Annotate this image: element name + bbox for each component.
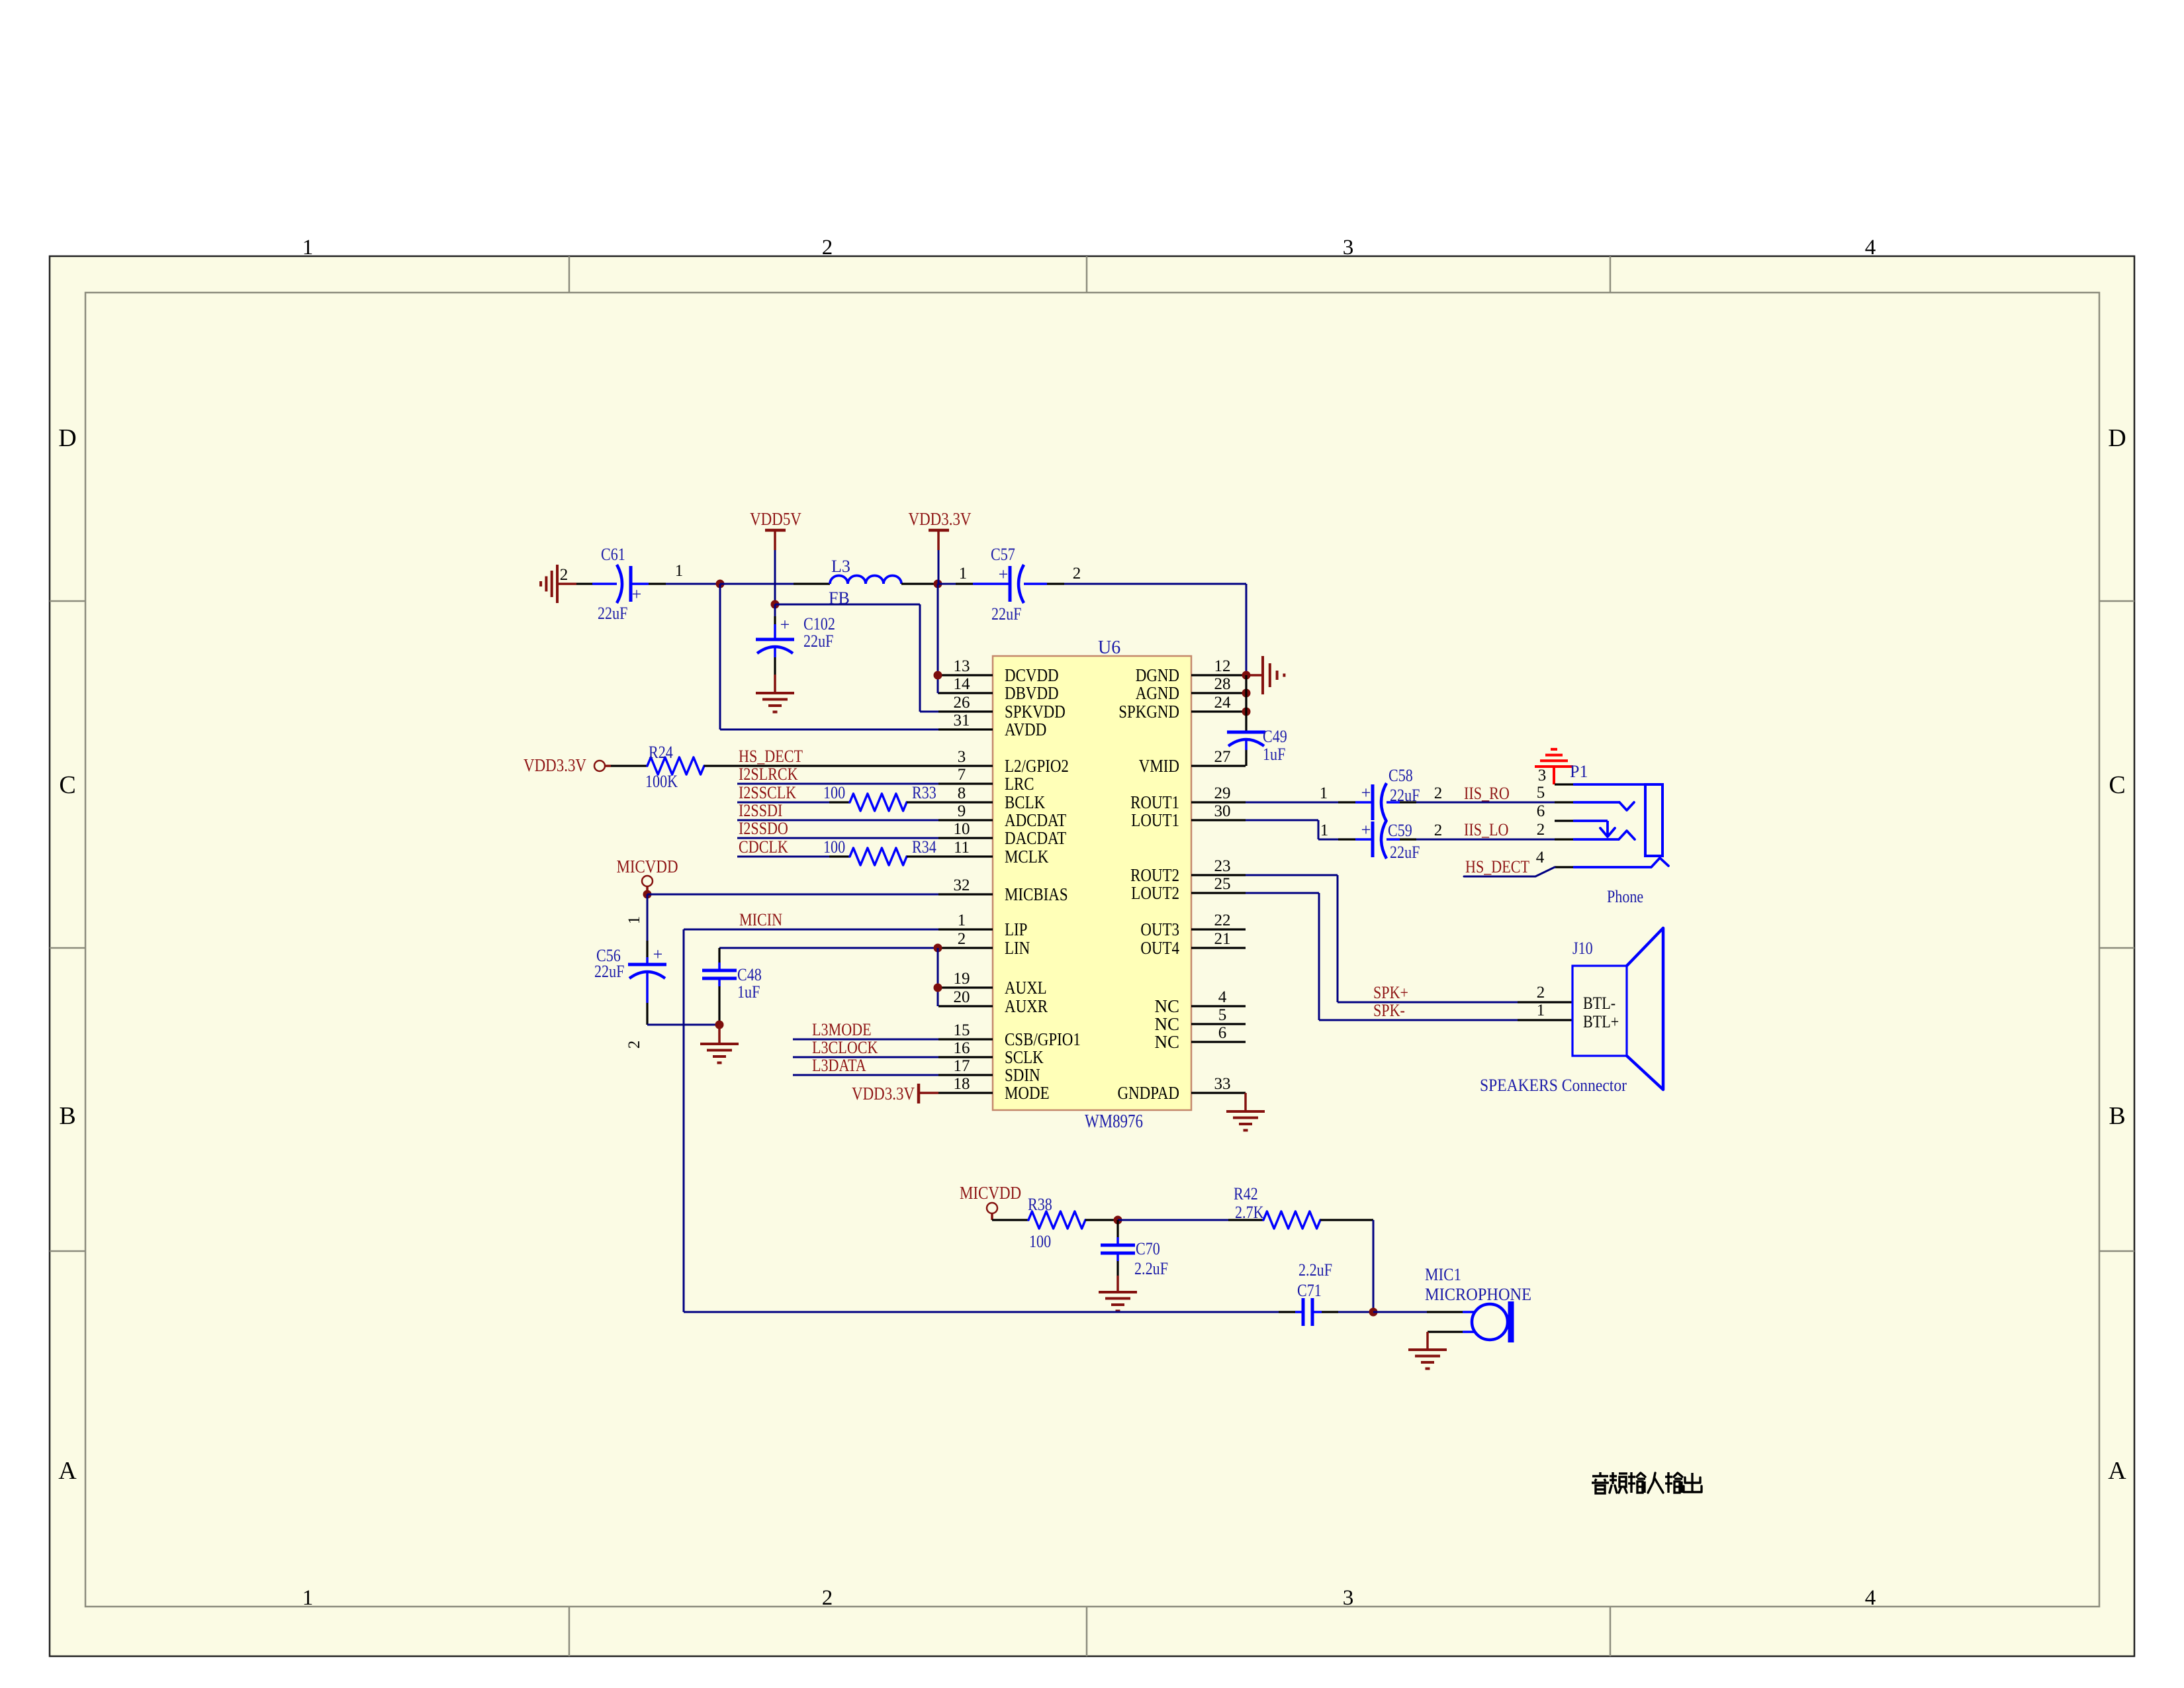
svg-text:1: 1 (302, 1586, 314, 1610)
svg-text:3: 3 (1343, 236, 1354, 259)
svg-text:100: 100 (1029, 1232, 1051, 1251)
ground below C48 (718, 1025, 721, 1044)
svg-text:L3CLOCK: L3CLOCK (812, 1038, 878, 1057)
svg-text:+: + (1361, 783, 1371, 802)
U6 pin 12 DGND (1191, 674, 1246, 676)
inner drawing border (85, 293, 2099, 1607)
svg-text:CDCLK: CDCLK (739, 837, 788, 857)
J10 speaker cone (1627, 928, 1663, 1090)
wire C59 to P1 pin2 (1416, 839, 1555, 841)
P1 pin 3 (1555, 783, 1573, 785)
wire pin7 LRC (737, 783, 938, 785)
U6 pin 18 MODE (938, 1092, 993, 1094)
svg-text:2: 2 (822, 1586, 833, 1610)
svg-text:OUT3: OUT3 (1140, 919, 1179, 939)
svg-text:Phone: Phone (1607, 887, 1643, 906)
U6 pin 28 AGND (1191, 692, 1246, 694)
node: C71/R42/MIC junction (1369, 1308, 1378, 1317)
wire pin9 ADCDAT (737, 820, 938, 821)
wire ROUT1 to C58 (1246, 802, 1338, 804)
svg-text:IIS_RO: IIS_RO (1464, 784, 1510, 803)
P1 pin 4 (1555, 866, 1573, 868)
svg-text:22uF: 22uF (598, 604, 627, 623)
U6 pin 16 SCLK (938, 1056, 993, 1058)
U6 pin 15 CSB/GPIO1 (938, 1038, 993, 1040)
U6 pin 10 DACDAT (938, 837, 993, 839)
IC U6 WM8976 body (993, 656, 1191, 1110)
U6 pin 32 MICBIAS (938, 893, 993, 895)
wire LOUT1 to C59 (1246, 820, 1318, 821)
svg-text:28: 28 (1214, 675, 1231, 693)
svg-text:3: 3 (958, 748, 966, 766)
svg-text:2: 2 (625, 1041, 643, 1049)
U6 pin 8 BCLK (938, 801, 993, 803)
microphone MIC1 (1427, 1311, 1463, 1313)
svg-text:2: 2 (822, 236, 833, 259)
wire MICVDD down to C56 (647, 894, 649, 941)
svg-text:C58: C58 (1388, 766, 1413, 785)
svg-text:R33: R33 (912, 783, 936, 802)
wire MICIN to LIP pin1 (684, 929, 938, 931)
capacitor C58 pin1 (1338, 801, 1355, 803)
svg-text:L2/GPIO2: L2/GPIO2 (1005, 756, 1069, 776)
U6 pin 24 SPKGND (1191, 710, 1246, 712)
svg-text:+: + (653, 945, 663, 964)
P1 contact arrow pin6 (1573, 820, 1608, 822)
svg-text:22: 22 (1214, 912, 1231, 929)
ground left of C61 (556, 565, 559, 603)
svg-text:21: 21 (1214, 930, 1231, 948)
J10 speaker body (1572, 966, 1627, 1056)
svg-text:LRC: LRC (1005, 774, 1034, 794)
svg-text:I2SLRCK: I2SLRCK (739, 765, 798, 784)
wire down to AVDD pin 31 (719, 584, 721, 729)
svg-text:31: 31 (954, 712, 970, 729)
P1 detect contact pin4 (1573, 866, 1651, 868)
capacitor C56 (646, 941, 648, 957)
svg-text:MICVDD: MICVDD (616, 857, 678, 876)
svg-text:1: 1 (959, 565, 968, 583)
svg-text:L3: L3 (831, 557, 850, 576)
svg-text:24: 24 (1214, 694, 1232, 712)
svg-text:DACDAT: DACDAT (1005, 828, 1067, 848)
svg-text:1: 1 (1320, 784, 1328, 802)
U6 pin 4 NC (1191, 1005, 1246, 1007)
svg-text:NC: NC (1154, 996, 1179, 1016)
svg-text:R24: R24 (649, 743, 673, 762)
node: R38/C70/R42 junction (1114, 1216, 1122, 1225)
svg-text:MICVDD: MICVDD (960, 1183, 1021, 1203)
capacitor C57 (973, 583, 1009, 585)
svg-text:1uF: 1uF (737, 982, 760, 1002)
svg-text:LOUT1: LOUT1 (1131, 810, 1179, 830)
svg-text:FB: FB (829, 588, 850, 608)
capacitor C57 pin1 (938, 583, 956, 585)
svg-text:ROUT1: ROUT1 (1130, 792, 1179, 812)
svg-text:MICBIAS: MICBIAS (1005, 884, 1068, 904)
P1 pin 5 (1555, 801, 1573, 803)
svg-text:4: 4 (1865, 1586, 1876, 1610)
svg-text:2: 2 (1073, 565, 1081, 583)
svg-text:23: 23 (1214, 857, 1231, 875)
svg-text:SPKGND: SPKGND (1118, 702, 1179, 722)
wire pin10 DACDAT (737, 837, 938, 839)
svg-text:9: 9 (958, 802, 966, 820)
svg-text:B: B (59, 1102, 75, 1130)
svg-text:C48: C48 (737, 965, 762, 984)
node: MICBIAS junction (643, 890, 652, 899)
svg-text:VDD3.3V: VDD3.3V (909, 509, 972, 529)
svg-text:1uF: 1uF (1263, 745, 1285, 764)
svg-text:+: + (780, 615, 790, 634)
capacitor C58 (1355, 801, 1371, 804)
node: AGND junction (1242, 689, 1251, 698)
svg-text:I2SSCLK: I2SSCLK (739, 783, 796, 802)
wire pin11 MCLK (737, 856, 829, 858)
svg-text:SCLK: SCLK (1005, 1047, 1044, 1067)
svg-text:MODE: MODE (1005, 1083, 1050, 1103)
svg-text:I2SSDI: I2SSDI (739, 801, 782, 820)
svg-text:25: 25 (1214, 875, 1231, 893)
svg-text:2.7K: 2.7K (1235, 1203, 1264, 1222)
P1 pin 2 (1555, 838, 1573, 840)
svg-text:C49: C49 (1263, 727, 1287, 746)
U6 pin 21 OUT4 (1191, 947, 1246, 949)
wire MICBIAS pin32 (647, 894, 938, 896)
svg-text:A: A (2108, 1457, 2126, 1485)
svg-text:NC: NC (1154, 1032, 1179, 1052)
ground below microphone (1408, 1348, 1447, 1351)
svg-text:2: 2 (1434, 784, 1443, 802)
svg-text:U6: U6 (1098, 637, 1120, 658)
J10 pin 2 (1518, 1001, 1572, 1003)
svg-text:AVDD: AVDD (1005, 720, 1046, 739)
U6 pin 14 DBVDD (938, 692, 993, 694)
wire to R42 (1118, 1219, 1228, 1221)
L3 right pin to VDD3.3V node (901, 583, 938, 585)
svg-text:22uF: 22uF (1390, 843, 1420, 862)
svg-text:+: + (1361, 820, 1371, 839)
svg-text:C61: C61 (601, 545, 625, 564)
ground (bright red) at P1 pin3 (1535, 765, 1573, 768)
U6 pin 3 L2/GPIO2 (938, 765, 993, 767)
resistor R34 (829, 855, 850, 857)
wire FB node to SPKVDD pin 26 (775, 604, 920, 606)
svg-text:22uF: 22uF (803, 632, 833, 651)
capacitor C102 (774, 604, 776, 616)
long wire MICIN down to microphone row (683, 929, 685, 1312)
wire rail to L3 (720, 583, 794, 585)
wire LOUT2 to SPK- (1246, 892, 1319, 894)
svg-text:R38: R38 (1028, 1195, 1052, 1214)
sheet background (50, 256, 2134, 1656)
svg-text:2: 2 (560, 566, 569, 584)
svg-text:32: 32 (954, 876, 970, 894)
svg-text:18: 18 (954, 1075, 970, 1093)
svg-text:D: D (2108, 424, 2126, 452)
svg-text:17: 17 (954, 1057, 970, 1075)
wire C58 to P1 pin5 (1416, 802, 1555, 804)
svg-text:4: 4 (1536, 849, 1545, 867)
svg-text:4: 4 (1218, 988, 1227, 1006)
node: DCVDD junction (934, 671, 942, 680)
ground below C70 (1116, 1276, 1119, 1292)
capacitor C49 (1245, 712, 1247, 732)
svg-text:+: + (999, 565, 1009, 584)
svg-text:SPK+: SPK+ (1373, 983, 1408, 1002)
svg-text:C70: C70 (1136, 1239, 1160, 1258)
capacitor C59 pin2 (1400, 838, 1416, 840)
U6 pin 9 ADCDAT (938, 819, 993, 821)
svg-text:BCLK: BCLK (1005, 792, 1046, 812)
wire mic row from MICIN (684, 1311, 1279, 1313)
svg-text:10: 10 (954, 820, 970, 838)
U6 pin 23 ROUT2 (1191, 874, 1246, 876)
svg-text:DCVDD: DCVDD (1005, 665, 1059, 685)
svg-text:LOUT2: LOUT2 (1131, 883, 1179, 903)
U6 pin 26 SPKVDD (938, 710, 993, 712)
wire C56 to ground node (647, 1024, 719, 1026)
svg-text:100: 100 (823, 783, 845, 802)
wire pin17 SDIN (793, 1074, 938, 1076)
P1 sleeve wire pin3 (1573, 783, 1662, 786)
svg-text:22uF: 22uF (991, 604, 1021, 624)
U6 pin 17 SDIN (938, 1074, 993, 1076)
svg-text:1: 1 (302, 236, 314, 259)
resistor R42 (1228, 1219, 1263, 1221)
svg-text:8: 8 (958, 784, 966, 802)
U6 pin 7 LRC (938, 782, 993, 784)
svg-text:J10: J10 (1572, 939, 1593, 958)
wire pin15 CSB/GPIO1 (793, 1039, 938, 1041)
svg-text:30: 30 (1214, 802, 1231, 820)
P1 jack body (1645, 784, 1662, 856)
node: VDD5V/C102/FB junction (771, 600, 780, 609)
svg-text:12: 12 (1214, 657, 1231, 675)
U6 pin 31 AVDD (938, 728, 993, 730)
svg-text:100: 100 (823, 837, 845, 857)
svg-text:R42: R42 (1234, 1184, 1258, 1203)
U6 pin 30 LOUT1 (1191, 819, 1246, 821)
svg-text:2: 2 (958, 930, 966, 948)
P1 pin 6 (1555, 820, 1573, 821)
node: L3/VDD3.3V/C57 junction (934, 580, 942, 588)
svg-text:C: C (2109, 771, 2125, 799)
svg-text:14: 14 (954, 675, 971, 693)
svg-text:MCLK: MCLK (1005, 847, 1049, 867)
svg-text:SPK-: SPK- (1373, 1001, 1405, 1020)
node: C48/C56 ground junction (715, 1021, 724, 1029)
title text (chinese): audio input output (1592, 1475, 1608, 1477)
wire VDD3.3V node down to DCVDD/DBVDD (937, 584, 939, 693)
microphone ground wire (1463, 1331, 1475, 1333)
svg-text:26: 26 (954, 694, 970, 712)
svg-text:B: B (2109, 1102, 2125, 1130)
capacitor C57 pin2 wire to AGND node (1047, 583, 1064, 585)
svg-text:MIC1: MIC1 (1425, 1265, 1461, 1284)
svg-text:C: C (59, 771, 75, 799)
svg-text:2.2uF: 2.2uF (1134, 1259, 1168, 1278)
wire LIN to AUXL/AUXR (937, 948, 939, 1006)
svg-text:2: 2 (1537, 984, 1545, 1002)
svg-text:DGND: DGND (1136, 665, 1179, 685)
svg-text:5: 5 (1218, 1006, 1227, 1024)
svg-text:CSB/GPIO1: CSB/GPIO1 (1005, 1029, 1081, 1049)
wire LIN pin2 (719, 947, 938, 949)
svg-text:C71: C71 (1297, 1281, 1322, 1300)
svg-text:HS_DECT: HS_DECT (739, 747, 803, 766)
svg-text:ADCDAT: ADCDAT (1005, 810, 1067, 830)
node: LIN junction (934, 944, 942, 953)
resistor R38 (992, 1219, 1028, 1221)
svg-text:R34: R34 (912, 837, 936, 857)
U6 pin 13 DCVDD (938, 674, 993, 676)
wire pin8 BCLK (737, 802, 829, 804)
svg-text:33: 33 (1214, 1075, 1231, 1093)
capacitor C48 (718, 948, 720, 962)
svg-text:ROUT2: ROUT2 (1130, 865, 1179, 885)
svg-text:7: 7 (958, 766, 966, 784)
capacitor C61 pin2 (576, 583, 593, 585)
wire R42 down to mic node (1373, 1220, 1375, 1312)
svg-text:100K: 100K (645, 772, 678, 791)
svg-text:BTL+: BTL+ (1583, 1012, 1619, 1031)
svg-text:1: 1 (1320, 821, 1329, 839)
U6 pin 5 NC (1191, 1023, 1246, 1025)
margin tick marks (569, 256, 570, 293)
svg-text:OUT4: OUT4 (1140, 938, 1179, 958)
svg-text:LIP: LIP (1005, 919, 1027, 939)
node: AUXL junction (934, 984, 942, 992)
svg-text:MICIN: MICIN (739, 910, 782, 929)
svg-text:VDD3.3V: VDD3.3V (852, 1084, 915, 1103)
svg-text:NC: NC (1154, 1014, 1179, 1034)
U6 pin 1 LIP (938, 928, 993, 930)
wire to microphone (1373, 1311, 1427, 1313)
svg-text:1: 1 (958, 912, 966, 929)
U6 pin 33 GNDPAD (1191, 1092, 1246, 1094)
svg-text:HS_DECT: HS_DECT (1465, 857, 1529, 876)
svg-text:2: 2 (1434, 821, 1443, 839)
svg-text:C59: C59 (1388, 821, 1412, 840)
svg-text:P1: P1 (1570, 762, 1588, 781)
svg-text:L3MODE: L3MODE (812, 1020, 872, 1039)
wire pin16 SCLK (793, 1056, 938, 1058)
svg-text:VDD5V: VDD5V (750, 509, 801, 529)
svg-text:22uF: 22uF (594, 962, 624, 981)
svg-text:16: 16 (954, 1039, 970, 1057)
svg-text:L3DATA: L3DATA (812, 1056, 866, 1075)
U6 pin 27 VMID (1191, 765, 1246, 767)
svg-text:SDIN: SDIN (1005, 1065, 1040, 1085)
ground at GNDPAD pin33 (1244, 1093, 1247, 1111)
svg-text:6: 6 (1218, 1024, 1227, 1042)
svg-text:1: 1 (1537, 1002, 1545, 1019)
svg-text:20: 20 (954, 988, 970, 1006)
capacitor C71 (1279, 1311, 1295, 1313)
U6 pin 11 MCLK (938, 855, 993, 857)
svg-text:IIS_LO: IIS_LO (1464, 820, 1509, 839)
inductor L3 (829, 583, 831, 585)
wire ROUT2 to SPK+ (1246, 874, 1338, 876)
node: SPKGND junction (1242, 708, 1251, 716)
svg-text:AGND: AGND (1136, 683, 1179, 703)
wire C71 to mic node (1338, 1311, 1373, 1313)
svg-text:3: 3 (1343, 1586, 1354, 1610)
node: DGND junction (1242, 671, 1251, 680)
U6 pin 2 LIN (938, 947, 993, 949)
svg-text:19: 19 (954, 970, 970, 988)
capacitor C70 (1116, 1220, 1118, 1237)
svg-text:VDD3.3V: VDD3.3V (523, 755, 586, 775)
svg-text:2: 2 (1537, 821, 1545, 839)
U6 pin 19 AUXL (938, 986, 993, 988)
U6 pin 6 NC (1191, 1041, 1246, 1043)
capacitor C59 (1355, 838, 1371, 841)
svg-text:5: 5 (1537, 784, 1545, 802)
svg-text:3: 3 (1538, 767, 1547, 784)
svg-text:D: D (58, 424, 76, 452)
svg-text:C57: C57 (991, 545, 1015, 564)
svg-text:VMID: VMID (1139, 756, 1179, 776)
capacitor C61 (592, 583, 617, 585)
node: C61/AVDD junction (716, 580, 725, 588)
svg-text:11: 11 (954, 839, 970, 857)
P1 tip contact pin5 (1573, 801, 1619, 804)
svg-text:I2SSDO: I2SSDO (739, 819, 788, 838)
U6 pin 29 ROUT1 (1191, 801, 1246, 803)
resistor R33 (829, 801, 850, 803)
svg-text:WM8976: WM8976 (1085, 1111, 1143, 1132)
U6 pin 25 LOUT2 (1191, 892, 1246, 894)
svg-text:1: 1 (625, 916, 643, 925)
svg-text:MICROPHONE: MICROPHONE (1425, 1285, 1531, 1304)
capacitor C58 pin2 (1400, 801, 1416, 803)
svg-text:15: 15 (954, 1021, 970, 1039)
svg-text:SPKVDD: SPKVDD (1005, 702, 1066, 722)
svg-text:29: 29 (1214, 784, 1231, 802)
svg-text:6: 6 (1537, 802, 1545, 820)
svg-text:C102: C102 (803, 614, 835, 633)
svg-text:4: 4 (1865, 236, 1876, 259)
capacitor C59 pin1 (1338, 838, 1355, 840)
U6 pin 22 OUT3 (1191, 928, 1246, 930)
svg-text:BTL-: BTL- (1583, 994, 1615, 1013)
svg-text:GNDPAD: GNDPAD (1118, 1083, 1180, 1103)
svg-text:LIN: LIN (1005, 938, 1030, 958)
capacitor C61 pin1 wire to node (649, 583, 666, 585)
svg-text:A: A (58, 1457, 77, 1485)
svg-text:AUXR: AUXR (1005, 996, 1048, 1016)
ground (digital) right of DGND (1250, 674, 1263, 677)
svg-text:13: 13 (954, 657, 970, 675)
wire DGND-AGND-SPKGND (1245, 675, 1247, 712)
svg-text:27: 27 (1214, 748, 1231, 766)
wire HS_DECT with rise to pin4 (1464, 867, 1555, 876)
svg-text:2.2uF: 2.2uF (1298, 1260, 1332, 1280)
ground below C102 (774, 675, 776, 693)
svg-text:SPEAKERS Connector: SPEAKERS Connector (1480, 1076, 1627, 1095)
svg-text:DBVDD: DBVDD (1005, 683, 1059, 703)
P1 ring contact pin2 (1573, 838, 1619, 841)
svg-text:1: 1 (675, 562, 684, 580)
U6 pin 20 AUXR (938, 1005, 993, 1007)
resistor R24 (611, 765, 647, 767)
svg-text:+: + (632, 585, 642, 604)
svg-text:AUXL: AUXL (1005, 978, 1047, 998)
wire VDD5V down to C102 node (774, 550, 776, 604)
J10 pin 1 (1518, 1019, 1572, 1021)
